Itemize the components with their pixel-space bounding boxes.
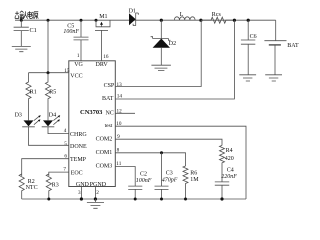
svg-text:14: 14	[117, 93, 123, 99]
wire TEMP pin 6 to R2	[22, 159, 69, 176]
svg-text:M1: M1	[99, 14, 107, 20]
svg-text:CHRG: CHRG	[70, 132, 87, 138]
capacitor C1	[14, 20, 37, 46]
node junction dot C6	[247, 19, 250, 22]
svg-text:2: 2	[96, 190, 99, 196]
ground under C1	[12, 46, 31, 51]
node junction dot D2	[160, 19, 163, 22]
svg-text:100nF: 100nF	[136, 178, 152, 184]
wire D3 to DONE pin 5	[29, 127, 69, 146]
wire COM2 pin 9 to R4	[115, 139, 222, 145]
wire COM3 pin 11 to C2	[115, 167, 135, 187]
svg-text:GND: GND	[76, 182, 90, 188]
svg-text:L: L	[180, 12, 184, 18]
resistor R2 NTC	[19, 174, 38, 199]
node junction dot VCC/R5	[47, 71, 50, 74]
svg-text:C6: C6	[250, 34, 257, 40]
svg-text:COM3: COM3	[96, 164, 113, 170]
node junction dot R3 bottom	[47, 198, 50, 201]
glyph 入	[23, 11, 27, 18]
svg-text:R5: R5	[49, 90, 56, 96]
wire CSP from rail to pin 13	[115, 20, 201, 86]
svg-text:D3: D3	[15, 112, 22, 118]
svg-text:DRV: DRV	[96, 62, 109, 68]
svg-text:PGND: PGND	[90, 182, 107, 188]
node VIN label 输入电源	[15, 11, 38, 19]
svg-text:4: 4	[64, 128, 67, 134]
svg-text:1: 1	[77, 53, 80, 59]
svg-text:420: 420	[225, 156, 234, 162]
resistor R1	[26, 73, 37, 113]
svg-text:C1: C1	[30, 27, 37, 34]
glyph 电	[28, 11, 32, 18]
diode D1 schottky	[129, 9, 139, 26]
svg-text:test: test	[105, 123, 113, 129]
wire EOC pin 7 to R3	[49, 172, 69, 176]
glyph 源	[32, 12, 38, 19]
svg-text:C3: C3	[166, 171, 173, 177]
wire GND pin 3 stub	[80, 187, 82, 200]
wire BAT from rail to pin 14	[115, 20, 234, 99]
ground main	[87, 199, 104, 208]
capacitor C5 100nF	[63, 20, 88, 61]
capacitor C2 100nF	[128, 171, 152, 199]
wire rail to VCC row	[47, 20, 49, 72]
svg-text:VCC: VCC	[70, 74, 82, 80]
svg-text:CSP: CSP	[104, 83, 115, 89]
svg-text:R6: R6	[190, 171, 197, 177]
wire top rail	[15, 19, 276, 21]
svg-text:100nF: 100nF	[63, 29, 79, 35]
node junction dot C5	[80, 19, 83, 22]
svg-text:BAT: BAT	[102, 96, 114, 102]
svg-text:COM2: COM2	[96, 136, 113, 142]
svg-text:D1: D1	[129, 9, 136, 15]
capacitor C4 220nF	[215, 167, 238, 199]
ground under C6	[239, 75, 256, 81]
wire PGND pin 2 stub	[94, 187, 96, 200]
battery BAT	[264, 20, 299, 75]
svg-text:EOC: EOC	[71, 171, 83, 177]
glyph 输	[15, 11, 24, 19]
ground under battery	[265, 75, 282, 81]
node junction dot GND	[80, 197, 83, 200]
wire bottom rail	[22, 198, 246, 200]
resistor R5	[45, 73, 56, 113]
node junction dot x48	[47, 19, 50, 22]
wire NC pin 12 stub	[115, 112, 135, 114]
LED D3	[15, 112, 41, 126]
resistor Rcs	[201, 12, 235, 23]
svg-text:VG: VG	[74, 62, 83, 68]
svg-text:Rcs: Rcs	[212, 12, 222, 18]
capacitor C6	[241, 20, 257, 75]
svg-text:1M: 1M	[190, 177, 199, 183]
transistor M1 PMOS	[95, 14, 110, 61]
svg-text:R4: R4	[226, 148, 233, 154]
ground under D2	[151, 65, 171, 70]
svg-text:470pF: 470pF	[162, 176, 178, 183]
wire COM1 pin 8 to R6	[115, 153, 185, 166]
node junction dot R6 bottom	[184, 198, 187, 201]
wire VCC row	[29, 72, 69, 74]
svg-text:R3: R3	[52, 182, 59, 188]
svg-text:TEMP: TEMP	[70, 157, 87, 163]
capacitor C3 470pF	[155, 153, 178, 199]
svg-text:5: 5	[64, 141, 67, 147]
svg-text:NC: NC	[106, 111, 114, 117]
node junction dot CSP sense	[199, 19, 202, 22]
svg-text:NTC: NTC	[26, 185, 38, 191]
node junction dot C3 top	[160, 151, 163, 154]
node junction dot M1 source	[95, 19, 98, 22]
resistor R3	[46, 174, 59, 199]
svg-text:3: 3	[78, 190, 81, 196]
node junction dot C2 bottom	[134, 198, 137, 201]
inductor L	[174, 12, 195, 20]
node junction dot PGND	[94, 197, 97, 200]
svg-text:16: 16	[103, 54, 109, 60]
resistor R4 420	[220, 145, 234, 182]
resistor R6 1M	[183, 166, 199, 199]
svg-text:13: 13	[117, 82, 123, 88]
svg-text:DONE: DONE	[70, 144, 87, 150]
node junction dot BAT feed	[233, 19, 236, 22]
wire D4 to CHRG pin 4	[48, 127, 69, 134]
svg-text:BAT: BAT	[287, 43, 299, 49]
svg-text:C2: C2	[140, 171, 147, 177]
svg-text:CN3703: CN3703	[80, 109, 103, 116]
LED D4	[42, 112, 61, 126]
svg-text:D2: D2	[169, 41, 176, 47]
svg-text:220nF: 220nF	[221, 174, 237, 180]
IC U1 CN3703	[69, 61, 116, 187]
node junction dot C4 bottom	[220, 197, 223, 200]
diode D2 schottky	[151, 20, 177, 65]
svg-text:R1: R1	[30, 90, 37, 96]
svg-text:COM1: COM1	[96, 150, 113, 156]
wire test pin 10 loop	[115, 126, 246, 199]
svg-text:C4: C4	[227, 167, 234, 173]
node junction dot C3 bottom	[160, 198, 163, 201]
svg-text:D4: D4	[49, 112, 56, 118]
node junction dot C1	[20, 19, 23, 22]
